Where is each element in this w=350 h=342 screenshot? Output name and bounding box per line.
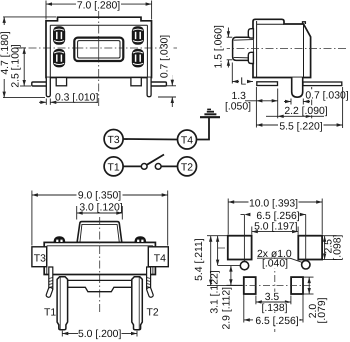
svg-text:6.5 [.256]: 6.5 [.256] [255, 316, 298, 327]
dimension 9.0 [.350] [32, 190, 168, 245]
centerline horizontal through bottom pads [236, 285, 313, 287]
svg-text:7.0 [.280]: 7.0 [.280] [77, 1, 120, 12]
terminal T2 [178, 157, 197, 176]
dimension 6.5 [.256] bottom [244, 295, 303, 327]
wire T3-T4 [123, 138, 177, 141]
svg-text:5.0 [.200]: 5.0 [.200] [78, 329, 121, 340]
contact oval upper-right [132, 26, 144, 45]
dimension 0.3 [.010] [39, 92, 98, 105]
dimension 3.5 [.138] [256, 292, 291, 314]
T3 side plate [32, 247, 47, 267]
svg-text:[.050]: [.050] [225, 101, 251, 112]
svg-text:T4: T4 [181, 136, 193, 147]
svg-text:1.5 [.060]: 1.5 [.060] [214, 25, 225, 68]
top-right small tab [303, 22, 306, 24]
dimension 2.5 [.098] [323, 234, 344, 260]
switch body outline [46, 17, 152, 77]
right terminal root hatched [146, 267, 154, 298]
dimension 5.4 [.211] [194, 236, 236, 286]
dimension 3.1 [.122] [210, 236, 240, 314]
centerline horizontal pad row [218, 247, 228, 249]
contact oval lower-right [132, 49, 144, 68]
plunger window inner [78, 41, 120, 58]
pad left [228, 236, 252, 260]
svg-text:3.1 [.122]: 3.1 [.122] [210, 270, 221, 313]
centerline over window [98, 39, 100, 60]
svg-text:2.9 [.112]: 2.9 [.112] [221, 287, 232, 330]
T4 side plate [148, 247, 168, 267]
svg-text:9.0 [.350]: 9.0 [.350] [78, 190, 121, 201]
svg-text:0.3 [.010]: 0.3 [.010] [55, 92, 98, 103]
centerline vertical [99, 217, 101, 313]
body top edge under cover [257, 23, 284, 25]
body [253, 19, 311, 77]
body inner left wall [256, 21, 258, 78]
switch contact right [155, 164, 161, 170]
body inner lines [47, 246, 153, 275]
svg-text:L: L [240, 76, 246, 87]
bottom pad left [244, 277, 256, 294]
dimension 0.7 [.030] side view [284, 99, 310, 105]
centerline horizontal [14, 47, 177, 49]
svg-text:5.0 [.197]: 5.0 [.197] [254, 222, 297, 233]
svg-text:0.7 [.030]: 0.7 [.030] [160, 35, 171, 78]
svg-text:[.079]: [.079] [317, 297, 328, 323]
button collar upper [248, 29, 253, 38]
dimension 5.0 [.197] [252, 222, 298, 235]
contact oval upper-left [53, 26, 65, 45]
leg T2 [132, 277, 143, 330]
pad right [298, 236, 322, 260]
lower bracket top line [57, 279, 142, 281]
dimension 0.7 [.030] front view [158, 34, 176, 108]
switch lever [147, 155, 164, 165]
svg-text:5.4 [.211]: 5.4 [.211] [194, 238, 205, 281]
center leg [292, 78, 303, 98]
ground [200, 109, 220, 117]
svg-text:T3: T3 [108, 135, 120, 146]
plunger window outer [74, 38, 123, 61]
svg-text:[.098]: [.098] [333, 234, 344, 260]
bottom pad right [291, 277, 303, 294]
svg-text:T1: T1 [108, 162, 120, 173]
left foot [46, 78, 50, 97]
right horizontal terminal [149, 82, 167, 86]
svg-text:[.040]: [.040] [262, 259, 288, 270]
svg-text:10.0 [.393]: 10.0 [.393] [249, 198, 298, 209]
body inner wall lines [50, 25, 147, 77]
button collar lower [248, 52, 253, 63]
terminal T3 [104, 130, 123, 149]
dimension 5.0 [.200] [62, 329, 137, 340]
hole left [240, 261, 248, 269]
svg-text:6.5 [.256]: 6.5 [.256] [256, 211, 299, 222]
button tip [233, 37, 253, 60]
plunger button top [77, 222, 122, 243]
right inner stub [131, 78, 141, 86]
left horizontal terminal [32, 82, 50, 86]
centerline horizontal [222, 48, 347, 50]
right bent foot [146, 287, 154, 298]
dimension 5.5 [.220] [256, 87, 342, 132]
svg-text:T1: T1 [44, 307, 56, 318]
hole right [302, 261, 310, 269]
label 2x diameter 1.0 [.040] [256, 248, 302, 270]
terminal T1 [104, 157, 123, 176]
rivet dome right [135, 237, 146, 242]
svg-text:T2: T2 [147, 307, 159, 318]
contact oval lower-left [53, 49, 65, 68]
rivet dome left [54, 237, 65, 242]
dimension 3.0 [.120] [77, 203, 123, 220]
dimension L [232, 63, 253, 88]
centerline vertical [98, 11, 100, 108]
text 0.7 [.030] side [305, 89, 348, 101]
wire T1 to contact [123, 165, 141, 167]
leg T1 [57, 277, 68, 330]
svg-text:T2: T2 [181, 162, 193, 173]
svg-text:T4: T4 [154, 254, 166, 265]
right foot [147, 78, 151, 97]
button tip inner lines [234, 40, 253, 58]
wire contact to T2 [161, 165, 177, 167]
dimension 2.9 [.112] [221, 266, 242, 330]
svg-text:T3: T3 [34, 254, 46, 265]
dimension 2.0 [.079] [304, 277, 328, 323]
terminal T4 [178, 130, 197, 149]
body outline [44, 242, 155, 274]
dimension 4.7 [.180] [0, 17, 56, 98]
wire T4 to ground [197, 117, 210, 139]
switch contact left [141, 164, 147, 170]
left terminal root hatched [46, 267, 54, 298]
svg-text:3.5: 3.5 [265, 292, 280, 303]
dimension 6.5 [.256] top [241, 211, 306, 262]
svg-text:[.138]: [.138] [262, 303, 288, 314]
lower bracket outline [68, 280, 132, 291]
dimension 2.5 [.100] [11, 44, 32, 87]
left terminal bar (side) [257, 82, 278, 86]
svg-text:3.0 [.120]: 3.0 [.120] [79, 203, 122, 214]
left inner stub [56, 78, 66, 86]
dimension 2.2 [.090] [266, 87, 329, 118]
svg-text:5.5 [.220]: 5.5 [.220] [279, 121, 322, 132]
plunger inner line [80, 224, 119, 242]
svg-text:4.7 [.180]: 4.7 [.180] [0, 31, 11, 74]
dimension 1.3 [.050] [225, 87, 278, 128]
svg-text:2.5 [.100]: 2.5 [.100] [11, 44, 22, 87]
svg-text:2.2 [.090]: 2.2 [.090] [284, 106, 327, 117]
right terminal bar (side) [303, 82, 342, 86]
dimension 1.5 [.060] [214, 24, 233, 70]
dimension 7.0 [.280] [46, 0, 152, 20]
body inner right wall [303, 24, 305, 78]
centerline vertical [274, 248, 276, 332]
left bent foot [46, 287, 54, 298]
dimension 10.0 [.393] [228, 198, 322, 234]
